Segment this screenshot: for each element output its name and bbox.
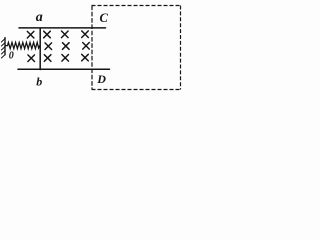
svg-text:0: 0 <box>9 51 14 62</box>
field cross r2c3 <box>63 43 70 50</box>
field cross r2c2 <box>45 43 52 50</box>
field cross r1c1 <box>27 31 34 38</box>
field cross r1c3 <box>62 31 69 38</box>
svg-text:D: D <box>96 72 106 86</box>
rail bottom <box>18 68 110 70</box>
svg-text:b: b <box>36 75 42 89</box>
field cross r3c2 <box>44 55 51 62</box>
field cross r3c1 <box>28 55 35 62</box>
field cross r3c3 <box>62 55 69 62</box>
field cross r1c2 <box>44 31 51 38</box>
field cross r3c4 <box>82 54 89 61</box>
rod ab <box>39 28 41 70</box>
wall <box>1 38 5 59</box>
rail top <box>19 27 106 29</box>
dashed box <box>92 6 181 90</box>
svg-text:a: a <box>36 10 43 25</box>
field cross r2c4 <box>83 43 90 50</box>
spring <box>6 42 40 48</box>
field cross r1c4 <box>82 31 89 38</box>
svg-text:C: C <box>100 11 109 25</box>
